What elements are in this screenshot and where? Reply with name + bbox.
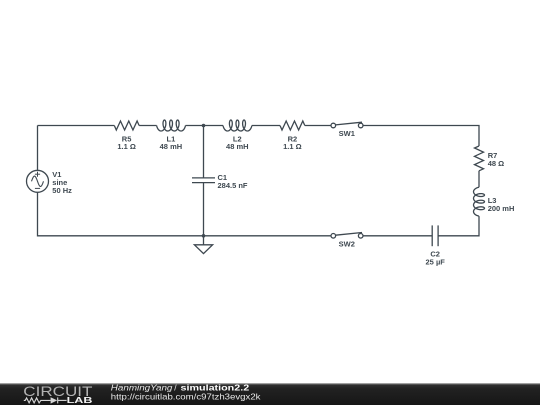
capacitor C1 <box>192 173 248 190</box>
switch SW2 <box>331 233 363 249</box>
wire top: source to R5 <box>38 125 115 127</box>
svg-text:48 mH: 48 mH <box>160 142 183 151</box>
ground <box>194 236 212 254</box>
wire R2 to SW1 <box>305 125 331 127</box>
svg-text:1.1 Ω: 1.1 Ω <box>283 142 302 151</box>
wire node A to L2 <box>204 125 224 127</box>
voltage source V1 <box>27 170 73 195</box>
svg-text:http://circuitlab.com/c97tzh3e: http://circuitlab.com/c97tzh3evgx2k <box>111 392 262 402</box>
wire R7 to L3 <box>478 171 480 187</box>
wire L2 to R2 <box>252 125 280 127</box>
node A junction dot <box>202 124 206 128</box>
inductor L1 <box>157 120 186 151</box>
wire SW2 to ground node <box>204 235 332 237</box>
wire V1 up to top-left corner <box>37 126 39 171</box>
wire node A down to C1 <box>203 126 205 178</box>
wire L1 to node A <box>185 125 203 127</box>
svg-text:SW2: SW2 <box>339 240 355 249</box>
resistor R7 <box>475 146 505 171</box>
wire SW1 to top-right corner and down <box>363 126 479 147</box>
wire C2 to SW2 <box>363 235 432 237</box>
switch SW1 <box>331 122 363 138</box>
inductor L3 <box>474 187 515 216</box>
bottom node junction dot <box>202 234 206 238</box>
footer bar background <box>0 383 540 405</box>
svg-text:200 mH: 200 mH <box>488 204 515 213</box>
resistor R2 <box>280 121 305 151</box>
svg-text:1.1 Ω: 1.1 Ω <box>117 142 136 151</box>
svg-text:25 µF: 25 µF <box>426 257 446 266</box>
wire L3 to bottom-right corner and C2 <box>438 216 479 236</box>
svg-text:48 mH: 48 mH <box>226 142 249 151</box>
resistor R5 <box>114 121 139 151</box>
wire C1 to bottom node <box>203 183 205 236</box>
wire bottom node to bottom-left corner and up <box>38 192 204 236</box>
wire R5 to L1 <box>139 125 157 127</box>
inductor L2 <box>223 120 252 151</box>
svg-text:LAB: LAB <box>67 396 93 405</box>
CircuitLab logo resistor-diode squiggle <box>24 397 67 403</box>
svg-text:284.5 nF: 284.5 nF <box>218 181 248 190</box>
svg-text:48 Ω: 48 Ω <box>488 159 504 168</box>
svg-text:50 Hz: 50 Hz <box>52 186 72 195</box>
svg-text:SW1: SW1 <box>339 129 355 138</box>
capacitor C2 <box>426 225 446 266</box>
